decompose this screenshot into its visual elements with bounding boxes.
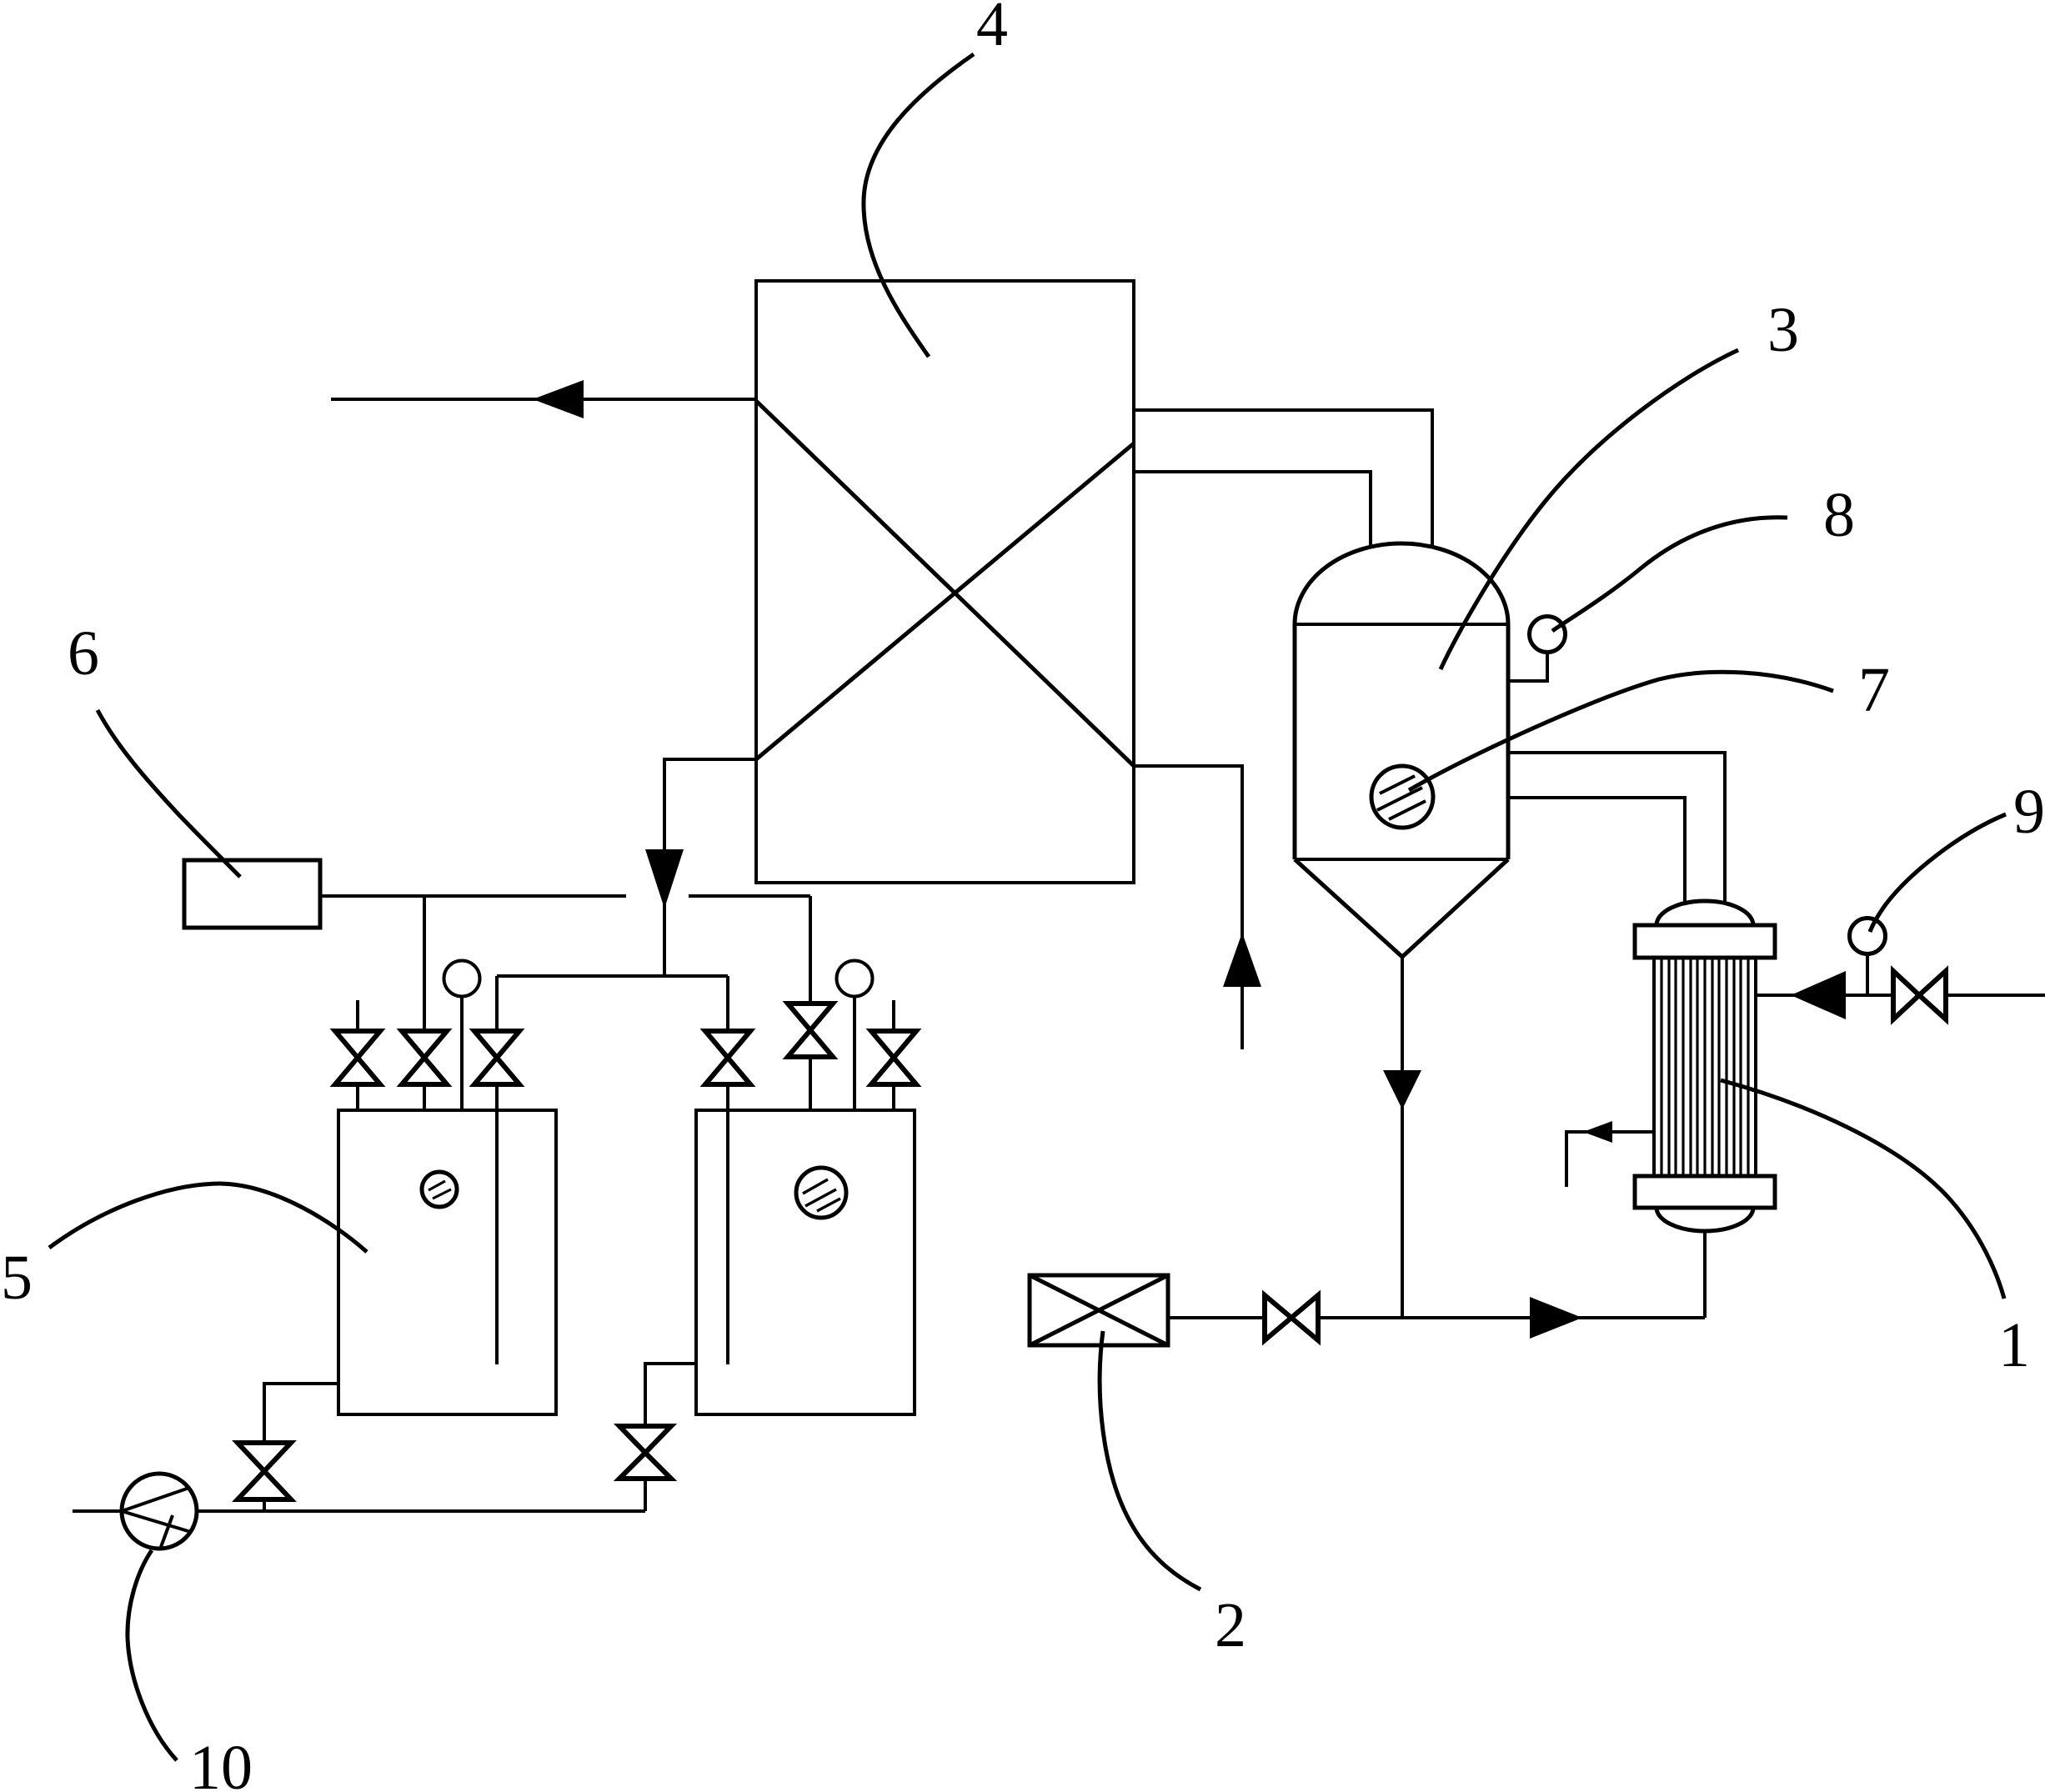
svg-text:4: 4: [976, 0, 1008, 59]
leader 9: [1870, 814, 2006, 932]
wire box 6 to tank valves (gap at crossing arrow): [320, 894, 626, 898]
valve L2: [402, 1031, 447, 1058]
drain valve left stem: [263, 1499, 266, 1511]
svg-text:2: 2: [1215, 1590, 1246, 1660]
pipe vessel 3 to HX upper: [1508, 753, 1725, 904]
valve on transfer line: [1265, 1295, 1291, 1340]
right flow arrow on transfer line: [1530, 1297, 1582, 1339]
drain valve right stem: [644, 1479, 647, 1511]
svg-text:1: 1: [1998, 1310, 2030, 1380]
pump 10 internal vanes: [122, 1488, 189, 1511]
coolant feed line into HX: [1756, 994, 2045, 997]
gauge on tank 5 right: [837, 961, 873, 997]
buffer box 6: [184, 860, 320, 928]
heat exchanger 1 bundle left wall: [1652, 958, 1656, 1176]
sight glass 7 hatch lines: [1377, 776, 1426, 819]
sight glass 7 on vessel 3: [1371, 766, 1433, 828]
drain valve right: [619, 1426, 671, 1453]
svg-text:5: 5: [1, 1243, 33, 1313]
valve R1: [705, 1031, 750, 1058]
dip tube below valve L3: [495, 1084, 499, 1364]
valve R3 stems: [892, 1000, 895, 1031]
left arrow on HX side stub: [1583, 1121, 1612, 1143]
leader 5: [49, 1184, 367, 1252]
svg-text:3: 3: [1767, 295, 1799, 365]
leader 7: [1409, 672, 1833, 790]
gauge 9 stem: [1866, 954, 1869, 995]
vessel 3 drain line: [1401, 957, 1404, 1318]
valve L3: [474, 1031, 519, 1058]
tank 5 right: [696, 1110, 915, 1414]
tank 5 left: [338, 1110, 556, 1414]
distribution header: [497, 974, 728, 978]
valve R2: [788, 1004, 833, 1030]
drain valve left: [238, 1443, 291, 1471]
valve R3: [871, 1031, 916, 1058]
gauge 8 stub pipe on vessel 3: [1508, 652, 1547, 681]
leader 1: [1721, 1080, 2004, 1299]
leader 2: [1100, 1331, 1200, 1589]
drop to valve L2: [423, 896, 426, 1031]
heat exchanger 1 bottom dome: [1657, 1208, 1753, 1231]
valve R2 stem below: [809, 1057, 812, 1110]
pipe vessel 3 to HX lower: [1508, 798, 1685, 904]
scrubber 4 crossed rectangle body: [756, 281, 1134, 883]
valve L1 stems: [356, 1000, 359, 1031]
gauge 9 circle: [1850, 919, 1886, 954]
sight glass on tank 5 left: [422, 1172, 457, 1207]
bottom transfer line from fan 2 to HX: [1168, 1316, 1705, 1319]
leader 6: [98, 710, 240, 877]
drain stub tank 5 left: [264, 1384, 338, 1443]
valve L1: [335, 1031, 380, 1058]
vessel 3 cone bottom: [1295, 859, 1508, 957]
heat exchanger 1 top dome: [1657, 901, 1753, 925]
drop to valve R2: [809, 896, 812, 1004]
svg-text:10: 10: [189, 1733, 253, 1792]
drain stub tank 5 right: [645, 1364, 696, 1426]
suction main pipe: [73, 1509, 645, 1513]
gauge 8 circle: [1530, 617, 1566, 653]
wire scrubber 4 upper right to vessel 3: [1134, 410, 1432, 548]
valve L2 stem below: [423, 1084, 426, 1110]
leader 4: [864, 54, 974, 357]
vessel 3 bottom seam: [1295, 858, 1508, 861]
HX side outlet stub with left arrow: [1566, 1132, 1654, 1187]
leader 3: [1441, 350, 1738, 669]
header drop to valve L3: [495, 976, 499, 1031]
header drop to valve R1: [726, 976, 729, 1031]
wire scrubber 4 lower-left corner to distribution drop: [664, 759, 756, 976]
vessel 3 dome: [1295, 543, 1508, 624]
svg-text:6: 6: [68, 618, 99, 688]
vessel 3 shoulder line: [1295, 623, 1508, 626]
svg-text:8: 8: [1823, 480, 1855, 550]
up flow arrow: [1223, 933, 1261, 987]
gauge on tank 5 left: [444, 961, 480, 997]
down flow arrow on drop: [645, 849, 684, 909]
scrubber 4 diagonal brace A: [756, 401, 1134, 766]
feed valve: [1893, 971, 1919, 1019]
heat exchanger 1 top flange: [1635, 925, 1775, 958]
vessel 3 right wall: [1506, 624, 1511, 859]
heat exchanger 1 bottom flange: [1635, 1176, 1775, 1208]
dip tube below valve R1: [726, 1084, 729, 1364]
wire scrubber 4 lower-right corner down with up arrow: [1134, 766, 1242, 1049]
heat exchanger 1 bottom outlet pipe: [1703, 1231, 1707, 1318]
fan 2 crossed box: [1030, 1275, 1168, 1345]
vessel 3 left wall: [1293, 624, 1297, 859]
left flow arrow on feed line: [1791, 971, 1846, 1019]
svg-text:7: 7: [1858, 655, 1890, 725]
outlet wire left from scrubber 4: [331, 398, 756, 401]
leader 10: [128, 1550, 177, 1760]
heat exchanger 1 tube bundle: [1662, 958, 1748, 1176]
wire scrubber 4 lower right to vessel 3: [1134, 472, 1371, 548]
svg-text:9: 9: [2013, 777, 2045, 847]
down flow arrow on vessel drain: [1383, 1070, 1421, 1109]
scrubber 4 diagonal brace B: [756, 443, 1134, 759]
leader 8: [1552, 518, 1787, 631]
heat exchanger 1 bundle right wall: [1754, 958, 1757, 1176]
left flow arrow on outlet: [533, 380, 584, 418]
pump 10 circle: [122, 1474, 197, 1549]
sight glass on tank 5 right: [796, 1168, 846, 1218]
